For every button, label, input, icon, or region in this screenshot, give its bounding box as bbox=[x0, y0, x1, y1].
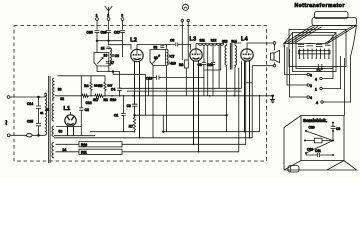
capacitor C11 bbox=[306, 149, 333, 157]
wire drop b bbox=[207, 45, 209, 96]
resistor R7 bbox=[129, 118, 136, 132]
wire screen rail bbox=[81, 75, 105, 77]
svg-text:Samleblok.: Samleblok. bbox=[303, 118, 327, 123]
lamp terminal a bbox=[181, 19, 183, 21]
svg-text:C8: C8 bbox=[115, 54, 119, 58]
wire branch to corner bbox=[135, 115, 227, 132]
antenna coil winding bbox=[110, 48, 112, 66]
output transformer 313 bbox=[222, 40, 228, 68]
wire L3 plate up bbox=[195, 44, 197, 49]
trimmer 15 bbox=[101, 46, 111, 50]
svg-text:L3: L3 bbox=[190, 37, 197, 43]
junction dots row w1 bbox=[90, 95, 260, 153]
wire antenna 3 down to tuning coil bbox=[122, 32, 124, 57]
svg-text:16: 16 bbox=[104, 54, 108, 58]
wire IF box legs bbox=[153, 66, 167, 138]
wire cathode cont bbox=[134, 106, 136, 117]
svg-text:31: 31 bbox=[40, 111, 44, 115]
wire chassis lead down bbox=[344, 58, 346, 116]
mains terminal bottom bbox=[7, 134, 10, 137]
net transformer flange bbox=[312, 12, 357, 26]
svg-text:C1: C1 bbox=[114, 114, 118, 118]
wire antenna 1 to coil box bbox=[96, 32, 98, 52]
net transformer lead 3 bbox=[285, 45, 313, 77]
junction box Samleblok bbox=[284, 116, 357, 171]
net transformer bottom pins 7 6 bbox=[317, 64, 323, 73]
svg-text:312: 312 bbox=[211, 39, 217, 43]
output transformer 314 bbox=[231, 40, 237, 68]
wire drop c bbox=[212, 45, 214, 62]
svg-text:7 6: 7 6 bbox=[317, 69, 321, 73]
label 16 / C8 bbox=[104, 54, 120, 58]
capacitor C3 bbox=[127, 104, 138, 108]
wire coil box legs bbox=[97, 66, 109, 72]
IF coil box bbox=[150, 50, 166, 66]
capacitor C20 bbox=[306, 126, 333, 141]
svg-text:1: 1 bbox=[96, 13, 98, 17]
wire drop a bbox=[203, 45, 205, 62]
wire out xfmr bottom leads bbox=[227, 68, 235, 132]
power unit box outline bbox=[58, 76, 82, 136]
resistor R junction bbox=[305, 138, 333, 143]
antenna symbol bbox=[105, 6, 112, 14]
wire AVC line w1 with resistors bbox=[55, 84, 273, 102]
svg-text:34: 34 bbox=[63, 148, 67, 152]
svg-text:C4: C4 bbox=[111, 88, 115, 92]
svg-text:R10: R10 bbox=[110, 98, 116, 102]
label 58 trimmer bbox=[154, 45, 165, 49]
svg-text:311: 311 bbox=[200, 39, 205, 43]
secondary winding 32 bbox=[53, 78, 65, 101]
power transformer core bbox=[49, 76, 51, 163]
wire antenna 1 down bbox=[96, 20, 98, 29]
resistor R10 bbox=[56, 61, 246, 147]
net transformer core plane bbox=[284, 26, 357, 57]
capacitor C15 mains bbox=[27, 120, 41, 136]
wire lamp a down bbox=[181, 22, 183, 60]
svg-text:C15: C15 bbox=[27, 120, 33, 124]
net transformer front face bbox=[284, 30, 346, 72]
junction mains a bbox=[38, 96, 40, 98]
wire L2 heater leg bbox=[139, 61, 141, 138]
capacitor C17 (antenna lead 3) bbox=[114, 30, 125, 34]
wire L1 legs bbox=[68, 126, 74, 136]
lamp terminal b bbox=[187, 19, 189, 21]
svg-text:2: 2 bbox=[107, 14, 109, 18]
tube L3 bbox=[190, 37, 203, 62]
net transformer lead 2 bbox=[287, 47, 312, 88]
wire winding 53 to box edge bbox=[56, 126, 81, 128]
speaker bbox=[271, 44, 280, 64]
wire antenna 1 cross rail bbox=[97, 40, 123, 42]
wire out xfmr top leads bbox=[227, 43, 241, 46]
svg-text:C11: C11 bbox=[315, 149, 321, 153]
svg-text:4: 4 bbox=[315, 77, 317, 81]
capacitor C4 bbox=[111, 88, 122, 96]
capacitor C6 bbox=[170, 39, 178, 47]
resistor R4 bbox=[84, 76, 92, 96]
svg-text:R4: R4 bbox=[84, 84, 88, 88]
speaker terminal top bbox=[273, 42, 276, 45]
wire mains bottom bbox=[10, 134, 26, 136]
speaker terminal bottom bbox=[273, 64, 276, 67]
svg-text:313: 313 bbox=[222, 40, 228, 44]
dial lamp bbox=[182, 4, 188, 10]
wire feed verticals right bbox=[205, 44, 242, 89]
wire L2 plate to C6 bbox=[137, 44, 175, 46]
IF coil winding bbox=[167, 50, 169, 66]
svg-text:32: 32 bbox=[60, 97, 64, 101]
svg-text:C8: C8 bbox=[198, 63, 202, 67]
wire antenna 2 to L2 grid bbox=[109, 32, 132, 49]
wire IF top stub bbox=[166, 45, 168, 50]
net transformer lead 4 bbox=[290, 49, 313, 100]
fuse holder bbox=[288, 166, 299, 173]
wire mains top bbox=[10, 93, 45, 97]
oscillator coil 311 312 horizontal winding bbox=[196, 39, 224, 46]
svg-text:R11: R11 bbox=[81, 150, 87, 154]
svg-text:Nettransformator: Nettransformator bbox=[295, 3, 345, 9]
svg-text:317: 317 bbox=[93, 98, 99, 102]
svg-text:C12: C12 bbox=[86, 101, 92, 105]
svg-text:R5: R5 bbox=[98, 84, 102, 88]
capacitor C10 bbox=[306, 141, 333, 154]
wire L2 plate stub bbox=[136, 45, 138, 50]
net transformer lead 4b bbox=[315, 66, 333, 81]
secondary winding mid bbox=[52, 104, 54, 122]
tube L4 bbox=[241, 37, 253, 62]
svg-text:1: 1 bbox=[315, 87, 317, 91]
svg-text:3: 3 bbox=[121, 13, 123, 17]
mains terminal top bbox=[7, 96, 10, 99]
wire antenna 2 down bbox=[108, 20, 110, 29]
wire lamp b down bbox=[187, 22, 189, 60]
capacitor C8 osc bbox=[198, 62, 207, 96]
antenna terminal 2 bbox=[107, 14, 110, 21]
wire L4 plate to speaker terminal bbox=[247, 43, 273, 49]
wire L4 leg a bbox=[244, 61, 246, 132]
capacitor C15 (antenna lead 1) bbox=[87, 30, 100, 34]
antenna terminal 3 bbox=[121, 13, 124, 20]
svg-text:C10: C10 bbox=[207, 63, 213, 67]
svg-text:R2: R2 bbox=[104, 98, 108, 102]
svg-text:4: 4 bbox=[310, 96, 312, 100]
wire L2 cathode leg bbox=[134, 61, 136, 104]
svg-text:3: 3 bbox=[310, 73, 312, 77]
svg-text:58: 58 bbox=[154, 45, 158, 49]
svg-text:C16: C16 bbox=[101, 30, 107, 34]
label 17 bbox=[106, 61, 114, 65]
net transformer lead 1 bbox=[315, 56, 341, 91]
wire antenna 3 down bbox=[122, 20, 124, 29]
svg-text:2: 2 bbox=[310, 84, 312, 88]
wire drop d bbox=[218, 45, 220, 88]
svg-text:~: ~ bbox=[1, 120, 11, 125]
power switch bbox=[27, 134, 33, 137]
capacitor C16 (antenna lead 2) bbox=[101, 30, 111, 34]
wire L4 leg b bbox=[249, 61, 251, 138]
svg-text:L2: L2 bbox=[130, 38, 137, 44]
svg-text:15: 15 bbox=[101, 46, 105, 50]
svg-text:C2: C2 bbox=[85, 108, 89, 112]
svg-text:30: 30 bbox=[154, 56, 158, 60]
net transformer lead 4c bbox=[316, 57, 351, 105]
capacitor C14 bbox=[27, 97, 41, 123]
wire bus2 double bbox=[54, 135, 95, 137]
net transformer pin dots bbox=[299, 57, 330, 59]
secondary winding 53 bbox=[52, 126, 62, 137]
label 410 bbox=[168, 61, 176, 65]
svg-text:C3: C3 bbox=[127, 104, 131, 108]
junction box terminals bbox=[304, 122, 334, 157]
svg-text:410: 410 bbox=[170, 61, 176, 65]
wire grid row bbox=[97, 72, 120, 89]
svg-text:R10: R10 bbox=[81, 143, 87, 147]
wire switch to transformer bbox=[32, 134, 45, 136]
wire w2 bbox=[120, 87, 242, 89]
svg-text:C13: C13 bbox=[146, 76, 152, 80]
svg-text:4: 4 bbox=[316, 101, 318, 105]
svg-text:C15: C15 bbox=[87, 30, 93, 34]
capacitor C1 bbox=[114, 96, 126, 132]
antenna terminal 1 bbox=[96, 13, 99, 20]
wire L1 plate stub bbox=[70, 112, 72, 115]
svg-text:R8: R8 bbox=[179, 63, 183, 67]
ground chassis bbox=[270, 95, 275, 103]
junction mains b bbox=[38, 134, 40, 136]
tube L2 bbox=[130, 38, 143, 62]
svg-text:C17: C17 bbox=[114, 30, 120, 34]
svg-text:C20: C20 bbox=[309, 126, 315, 130]
rectifier tube L1 bbox=[64, 106, 77, 126]
wire speaker return bbox=[252, 65, 273, 67]
secondary winding 34 bbox=[52, 143, 66, 158]
wire L3 leg a bbox=[193, 61, 195, 145]
capacitor C13 bbox=[146, 76, 159, 81]
svg-text:53: 53 bbox=[59, 130, 63, 134]
wire w3 bbox=[127, 90, 242, 92]
svg-text:C7: C7 bbox=[170, 54, 174, 58]
svg-text:C14: C14 bbox=[27, 102, 33, 106]
net transformer terminal strip bbox=[298, 44, 331, 58]
wire C6 to L3 grid bbox=[178, 45, 191, 50]
capacitor C10 osc bbox=[207, 62, 215, 96]
wire bus1 bbox=[90, 96, 260, 132]
capacitor C2 bbox=[79, 108, 89, 112]
capacitor C9 bbox=[331, 123, 341, 141]
resistor R8 bbox=[179, 60, 188, 96]
wire w4 bbox=[149, 77, 205, 79]
output transformer core bbox=[230, 43, 232, 70]
label C7 bbox=[168, 54, 175, 58]
dashed chassis enclosure border bbox=[14, 26, 267, 161]
svg-text:38: 38 bbox=[58, 87, 62, 91]
power transformer primary winding bbox=[45, 93, 47, 135]
resistor R11 bbox=[56, 68, 239, 154]
svg-text:17: 17 bbox=[110, 61, 114, 65]
svg-text:R7: R7 bbox=[129, 125, 133, 129]
wire screen row bbox=[113, 73, 146, 75]
svg-text:L1: L1 bbox=[64, 106, 71, 112]
antenna coil box bbox=[94, 53, 109, 67]
svg-text:L4: L4 bbox=[241, 37, 248, 43]
svg-text:C9: C9 bbox=[336, 127, 340, 131]
resistor R5 bbox=[98, 76, 106, 96]
svg-text:C6: C6 bbox=[170, 39, 174, 43]
wire L3 leg b bbox=[198, 61, 200, 152]
